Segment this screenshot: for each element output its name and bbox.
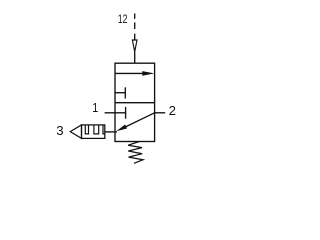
blocked port 3 symbol (upper box) (115, 87, 125, 98)
svg-text:3: 3 (56, 123, 63, 138)
pilot line to valve (134, 52, 136, 63)
svg-text:12: 12 (118, 12, 128, 26)
port 2 connection line (155, 112, 166, 114)
svg-text:2: 2 (169, 103, 176, 118)
silencer baffle 1 (85, 125, 88, 134)
blocked port 1 symbol (lower box) (115, 107, 126, 119)
silencer nozzle triangle (70, 125, 81, 138)
valve body V1 (3/2-way valve, two position boxes) (115, 63, 155, 141)
pilot line 12 (dashed) (134, 14, 136, 40)
port 3 connection line (105, 131, 117, 133)
return spring (128, 142, 143, 164)
port 1 connection line (105, 112, 115, 114)
silencer baffle 2 (94, 125, 99, 134)
svg-text:1: 1 (92, 100, 98, 115)
flow path arrow 2->3 (lower box, diagonal) (116, 113, 154, 132)
silencer body (82, 125, 105, 138)
silencer baffle 3 (103, 125, 105, 134)
position divider line (115, 102, 155, 104)
pilot hollow arrowhead (132, 40, 137, 52)
flow path arrow 1->2 (upper box) (115, 71, 154, 76)
